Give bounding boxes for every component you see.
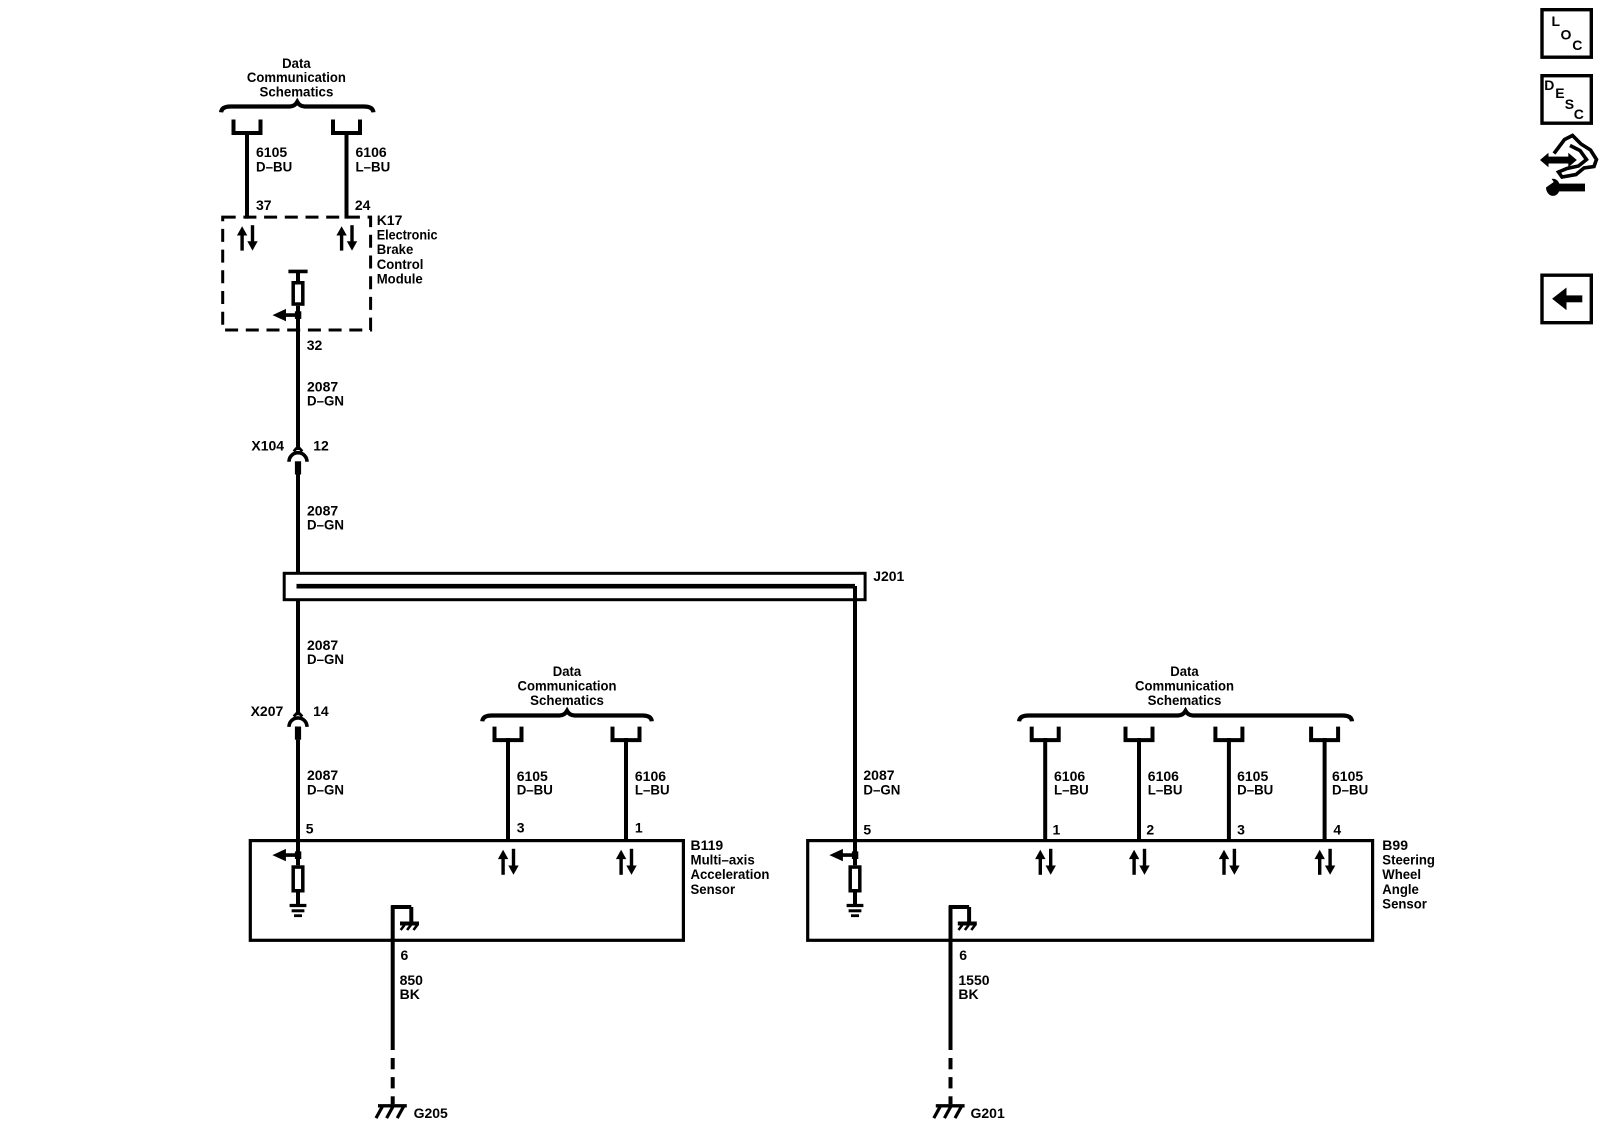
svg-text:2087: 2087: [307, 767, 338, 783]
svg-text:L: L: [1552, 13, 1561, 29]
svg-text:Communication: Communication: [247, 70, 346, 85]
svg-text:C: C: [1572, 37, 1582, 53]
svg-text:E: E: [1555, 85, 1564, 101]
svg-text:37: 37: [256, 197, 272, 213]
svg-text:D–BU: D–BU: [256, 159, 292, 174]
svg-text:G205: G205: [414, 1105, 448, 1121]
svg-text:2087: 2087: [307, 378, 338, 394]
svg-text:2087: 2087: [307, 502, 338, 518]
svg-text:Steering: Steering: [1382, 852, 1435, 867]
svg-text:32: 32: [307, 337, 323, 353]
svg-text:Schematics: Schematics: [1148, 693, 1222, 708]
svg-text:Schematics: Schematics: [259, 84, 333, 99]
svg-text:X104: X104: [251, 438, 284, 454]
svg-text:J201: J201: [873, 568, 904, 584]
svg-text:Brake: Brake: [377, 242, 414, 257]
svg-text:6106: 6106: [356, 144, 387, 160]
svg-text:Communication: Communication: [1135, 678, 1234, 693]
svg-text:S: S: [1565, 96, 1574, 112]
svg-text:Sensor: Sensor: [1382, 896, 1427, 911]
svg-text:3: 3: [1237, 821, 1245, 837]
svg-text:Module: Module: [377, 271, 423, 286]
svg-text:BK: BK: [958, 986, 978, 1002]
svg-text:X207: X207: [251, 703, 284, 719]
svg-text:D–GN: D–GN: [863, 782, 900, 797]
svg-text:BK: BK: [400, 986, 420, 1002]
svg-text:12: 12: [313, 438, 329, 454]
svg-text:L–BU: L–BU: [356, 159, 391, 174]
svg-text:Data: Data: [282, 56, 311, 71]
svg-text:Data: Data: [553, 664, 582, 679]
svg-text:D: D: [1544, 77, 1554, 93]
svg-text:Wheel: Wheel: [1382, 867, 1421, 882]
svg-text:L–BU: L–BU: [1054, 782, 1089, 797]
svg-text:Communication: Communication: [518, 678, 617, 693]
svg-text:L–BU: L–BU: [1148, 782, 1183, 797]
svg-text:D–BU: D–BU: [1332, 782, 1368, 797]
svg-text:D–GN: D–GN: [307, 517, 344, 532]
svg-text:6: 6: [401, 947, 409, 963]
svg-text:Schematics: Schematics: [530, 693, 604, 708]
svg-text:4: 4: [1333, 821, 1341, 837]
svg-text:D–GN: D–GN: [307, 782, 344, 797]
svg-text:6105: 6105: [256, 144, 287, 160]
svg-text:5: 5: [863, 821, 871, 837]
svg-text:2087: 2087: [307, 637, 338, 653]
svg-text:D–BU: D–BU: [1237, 782, 1273, 797]
svg-text:Multi–axis: Multi–axis: [691, 852, 756, 867]
svg-text:2: 2: [1146, 821, 1154, 837]
svg-text:G201: G201: [971, 1105, 1005, 1121]
svg-text:Sensor: Sensor: [691, 881, 736, 896]
svg-text:L–BU: L–BU: [635, 782, 670, 797]
svg-text:D–GN: D–GN: [307, 393, 344, 408]
svg-text:24: 24: [355, 197, 371, 213]
svg-text:14: 14: [313, 703, 329, 719]
svg-text:Electronic: Electronic: [377, 227, 438, 243]
svg-text:Acceleration: Acceleration: [691, 867, 770, 882]
svg-text:1: 1: [635, 820, 643, 836]
svg-text:Control: Control: [377, 256, 424, 271]
svg-text:D–BU: D–BU: [517, 782, 553, 797]
svg-text:5: 5: [306, 821, 314, 837]
svg-text:2087: 2087: [863, 767, 894, 783]
svg-text:6: 6: [959, 947, 967, 963]
svg-text:K17: K17: [377, 212, 403, 228]
svg-text:3: 3: [517, 820, 525, 836]
svg-text:B99: B99: [1382, 837, 1408, 853]
svg-text:Angle: Angle: [1382, 881, 1419, 896]
svg-text:C: C: [1574, 106, 1584, 122]
svg-text:B119: B119: [691, 837, 724, 853]
svg-text:O: O: [1561, 27, 1572, 43]
svg-text:D–GN: D–GN: [307, 652, 344, 667]
svg-text:Data: Data: [1170, 664, 1199, 679]
svg-text:1: 1: [1053, 821, 1061, 837]
